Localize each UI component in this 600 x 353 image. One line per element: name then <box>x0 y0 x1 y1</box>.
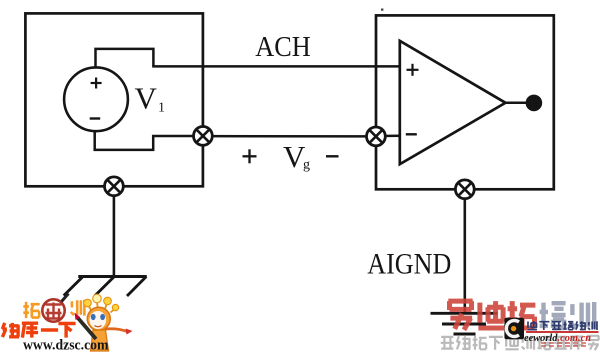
svg-text:g: g <box>303 158 310 173</box>
V1 minus sign <box>90 117 101 119</box>
watermark magnifier ring with "xin" char <box>42 294 68 322</box>
wire from V1 + terminal (up and over) <box>96 49 154 68</box>
watermark text "pei xun" (gray) <box>540 302 595 329</box>
scan speck <box>381 9 383 11</box>
watermark red underline <box>526 331 599 333</box>
left device box <box>25 13 203 186</box>
op-amp + input label <box>407 64 419 76</box>
watermark mascot (orange robot) <box>75 294 133 351</box>
svg-text:1: 1 <box>158 101 165 116</box>
svg-text:AIGND: AIGND <box>367 248 451 281</box>
svg-text:ACH: ACH <box>255 32 310 63</box>
voltage source V1 <box>64 67 128 131</box>
watermark char "pian" (orange) <box>71 300 85 316</box>
wire op-amp output <box>506 102 528 105</box>
watermark text "eeworld chinese" (navy) <box>528 321 598 330</box>
wire Vg between boxes <box>203 135 376 138</box>
wire from right box bottom terminal down (AIGND) <box>463 192 466 314</box>
op-amp - input label <box>406 133 417 135</box>
node: terminal on right box bottom edge <box>455 180 474 199</box>
op-amp U1 <box>400 41 506 164</box>
label + (Vg polarity) <box>243 149 257 163</box>
V1 plus sign <box>91 78 102 89</box>
wire from left box bottom terminal down <box>113 190 116 277</box>
svg-text:eeworld.com.cn: eeworld.com.cn <box>524 333 591 344</box>
watermark tiny red caption <box>541 343 586 346</box>
right device box <box>376 15 554 189</box>
watermark eeworld logo block <box>504 318 524 339</box>
wire ACH to op-amp + input <box>152 65 400 68</box>
earth ground <box>431 313 498 334</box>
output node dot <box>526 95 543 112</box>
node: terminal on left box right edge <box>194 126 213 145</box>
wire to op-amp - input <box>376 134 401 137</box>
watermark text "yi di tuo" (red) <box>448 301 535 330</box>
svg-text:www.dzsc.com: www.dzsc.com <box>23 338 109 353</box>
node: terminal on right box left edge <box>367 127 386 146</box>
label - (Vg polarity) <box>326 155 339 157</box>
watermark char "zhao" (orange) <box>23 302 39 318</box>
watermark text "weiku yixia" (red) <box>2 322 75 338</box>
wire from V1 - terminal (down and over) <box>95 131 203 150</box>
node: terminal on left box bottom edge <box>105 177 124 196</box>
svg-text:V: V <box>135 81 158 116</box>
watermark gray slogan text <box>441 335 599 350</box>
chassis ground <box>64 277 147 297</box>
